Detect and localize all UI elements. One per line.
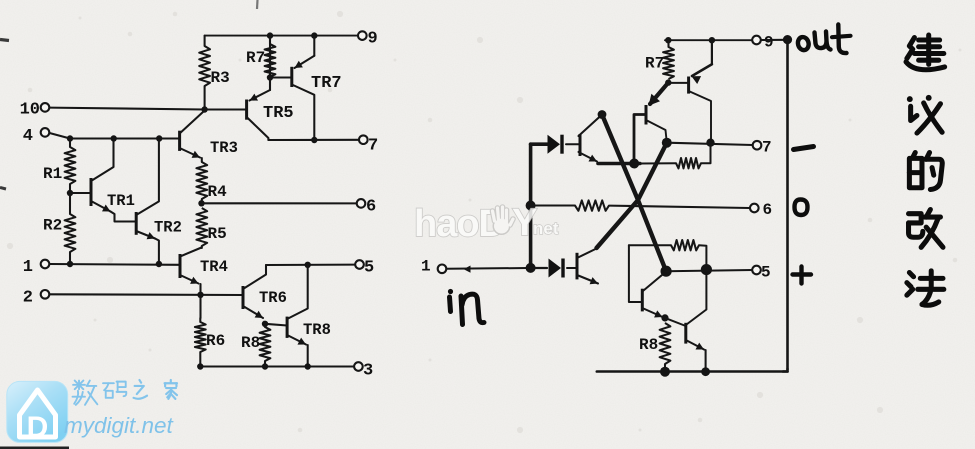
transistor TR3 base bar bbox=[178, 131, 181, 151]
wire middle resistor to pin 6 bbox=[609, 206, 750, 208]
wire pin 1 to input bus bbox=[447, 267, 529, 270]
svg-text:R3: R3 bbox=[211, 69, 230, 87]
pin 5 terminal (right) bbox=[752, 266, 761, 275]
junction input bus / pin6 rail bbox=[526, 201, 536, 211]
junction pin4 rail / TR2 collector bbox=[156, 135, 162, 141]
wire bus to diode D2 bbox=[531, 267, 547, 269]
wire TR8eq emitter down to bottom rail bbox=[705, 350, 707, 372]
diode D1 bbox=[548, 135, 561, 154]
TR3eq emitter w/ arrow bbox=[579, 152, 598, 162]
junction top rail / TR7eq emitter bbox=[709, 37, 715, 43]
junction pin5 rail / cross wire A / TR6eq collector bbox=[661, 266, 672, 277]
pin 6 terminal (right) bbox=[750, 204, 759, 213]
junction R3 / pin10 rail / TR3 collector / TR5 base bbox=[201, 106, 207, 112]
TR6eq collector to pin5 junction bbox=[642, 273, 665, 292]
junction pin3 rail / R8 bbox=[262, 363, 268, 369]
wire: junction to pin 6 bbox=[202, 202, 357, 204]
transistor TR8 base bar bbox=[286, 317, 289, 338]
junction input bus / input wire bbox=[526, 263, 536, 273]
TR4eq emitter w/ arrow bbox=[577, 275, 598, 284]
svg-text:R6: R6 bbox=[206, 332, 225, 350]
resistor R3 bbox=[199, 46, 210, 86]
wire R8 bottom (right) bbox=[664, 364, 666, 372]
heading char 议 bbox=[907, 95, 942, 133]
svg-text:5: 5 bbox=[364, 259, 374, 278]
resistor R8 (right) bbox=[660, 323, 671, 364]
svg-text:R5: R5 bbox=[208, 225, 227, 243]
wire R4 top bbox=[201, 158, 203, 162]
pin 4 terminal bbox=[41, 128, 50, 137]
TR3 emitter w/ arrow bbox=[180, 148, 200, 158]
junction top rail / out bus bbox=[783, 35, 792, 44]
svg-text:10: 10 bbox=[20, 101, 40, 120]
TR8 collector up to pin5 rail bbox=[287, 265, 308, 319]
svg-text:4: 4 bbox=[23, 127, 33, 146]
junction pin7 rail bbox=[311, 137, 317, 143]
TR7 collector down to pin7 rail bbox=[292, 85, 315, 141]
wire to TR8 base bbox=[265, 324, 287, 326]
wire R2 top bbox=[69, 193, 71, 214]
resistor R8 bbox=[260, 327, 271, 361]
junction pin3 rail / TR8 emitter bbox=[305, 363, 311, 369]
TR1 collector bbox=[91, 139, 114, 182]
cross wire B: pin7 junction to TR4eq collector bbox=[597, 143, 667, 248]
junction top rail / TR7 bbox=[311, 32, 317, 38]
junction TR6 emitter / R8 / TR8 base bbox=[262, 321, 268, 327]
pin 1 terminal (right) bbox=[438, 265, 447, 274]
TR6 emitter w/ arrow bbox=[243, 306, 263, 318]
svg-text:R7: R7 bbox=[246, 49, 265, 67]
scan artifact top edge tick bbox=[256, 0, 259, 9]
wire feedback resistor up to pin7 rail bbox=[701, 143, 711, 164]
handwritten plus bbox=[793, 267, 812, 284]
TR7 emitter vertical bbox=[313, 36, 315, 56]
transistor TR7-equivalent base bar bbox=[687, 77, 690, 94]
wire TR2 emitter down to pin1 rail bbox=[155, 239, 159, 265]
wire pin 5 rail (right) bbox=[666, 270, 752, 271]
junction top rail / R7+TR5 bbox=[267, 32, 273, 38]
wire TR8 emitter down to pin3 rail bbox=[307, 345, 309, 367]
pin 9 terminal (left) bbox=[358, 31, 367, 40]
junction pin3 rail / R6 bbox=[197, 363, 203, 369]
junction bottom rail / TR8eq emitter bbox=[701, 367, 710, 376]
TR4eq collector bbox=[577, 249, 597, 259]
wire: right top rail to pin 9 bbox=[665, 39, 752, 41]
junction pin1 rail / TR2 emitter bbox=[156, 261, 162, 267]
input bus vertical (hand-drawn) bbox=[529, 144, 533, 268]
junction R1/R2/TR1 base bbox=[67, 190, 73, 196]
junction R7 / TR7eq base / TR5eq collector arrow bbox=[665, 79, 671, 85]
svg-text:net: net bbox=[533, 219, 559, 238]
wire TR6eq base rail to lower resistor bbox=[629, 244, 671, 246]
svg-text:TR2: TR2 bbox=[154, 219, 182, 237]
junction pin7 rail / TR5eq emitter bbox=[662, 138, 672, 148]
TR8eq collector up to pin5 rail bbox=[686, 275, 707, 325]
handwritten o bbox=[795, 200, 808, 216]
transistor TR1 base bar bbox=[90, 178, 93, 206]
TR5eq emitter down to pin7 rail bbox=[646, 120, 667, 143]
wire R4 bottom bbox=[201, 199, 203, 203]
wire: left top rail to pin 9 bbox=[205, 35, 358, 37]
svg-text:1: 1 bbox=[23, 258, 33, 277]
TR7 emitter arrow into base bbox=[295, 56, 315, 68]
cross wire A: TR3eq collector to pin5 junction bbox=[602, 115, 666, 272]
TR7eq emitter vertical bbox=[711, 40, 713, 64]
svg-text:R7: R7 bbox=[645, 55, 664, 73]
logo text 家 bbox=[165, 380, 177, 399]
wire R8 bottom bbox=[264, 361, 266, 367]
wire D2 to TR4eq base bbox=[567, 267, 577, 269]
wire R6 top bbox=[199, 318, 201, 322]
junction pin4 rail / R1 bbox=[67, 135, 73, 141]
transistor TR8-equivalent base bar bbox=[684, 323, 687, 344]
TR6 collector up to pin5 rail bbox=[243, 265, 266, 289]
svg-text:R1: R1 bbox=[43, 165, 62, 183]
watermark haoDY.net bbox=[414, 202, 559, 245]
wire R7 top bbox=[269, 36, 271, 44]
pin 6 terminal (left) bbox=[357, 199, 366, 208]
wire R5 bottom bbox=[201, 246, 203, 248]
out bus vertical wire bbox=[786, 40, 789, 369]
wire bus to middle resistor bbox=[531, 205, 575, 207]
svg-text:TR8: TR8 bbox=[303, 321, 331, 339]
transistor TR5 base bar bbox=[245, 100, 248, 120]
scan artifact bottom-left black strip bbox=[0, 447, 69, 449]
svg-text:9: 9 bbox=[764, 34, 774, 52]
resistor R1 bbox=[65, 147, 76, 184]
transistor TR4-equivalent base bar bbox=[576, 253, 579, 280]
TR5 collector to pin7 rail bbox=[247, 117, 315, 140]
svg-text:R2: R2 bbox=[43, 217, 62, 235]
pin 2 terminal bbox=[41, 290, 50, 299]
logo text 之 bbox=[134, 380, 148, 399]
svg-text:D: D bbox=[27, 411, 49, 444]
diode D2 bbox=[549, 259, 562, 278]
heading char 建 bbox=[906, 35, 945, 70]
logo house outline bbox=[20, 390, 56, 437]
junction TR6eq emitter / R8 / TR8eq base bbox=[661, 314, 668, 321]
transistor TR4 base bar bbox=[179, 254, 182, 278]
svg-text:6: 6 bbox=[366, 198, 376, 217]
TR3 collector bbox=[180, 111, 205, 134]
TR7eq emitter arrow into base bbox=[692, 64, 712, 76]
TR3eq collector bbox=[579, 116, 602, 137]
pin 7 terminal (right) bbox=[753, 141, 762, 150]
svg-text:2: 2 bbox=[23, 289, 33, 308]
TR4 collector bbox=[180, 248, 202, 257]
wire TR1 base bbox=[70, 192, 91, 194]
junction TR3eq collector / cross wire A bbox=[598, 110, 607, 119]
svg-text:TR1: TR1 bbox=[107, 192, 135, 210]
junction bottom rail / R8 bbox=[660, 367, 670, 377]
svg-text:1: 1 bbox=[421, 258, 431, 276]
svg-text:3: 3 bbox=[363, 362, 373, 381]
TR8 emitter w/ arrow bbox=[287, 335, 306, 345]
junction R7 / TR7 base / TR5 emitter bbox=[267, 74, 273, 80]
pin 9 terminal (right) bbox=[752, 36, 761, 45]
scan artifact left edge dash 1 bbox=[0, 40, 9, 41]
resistor R6 bbox=[195, 322, 206, 352]
scan artifact left edge dash 2 bbox=[0, 188, 6, 190]
TR2 emitter w/ arrow bbox=[136, 231, 155, 239]
emitter rail thick segment (hand-drawn) bbox=[598, 162, 640, 166]
svg-text:TR5: TR5 bbox=[263, 104, 294, 123]
handwritten "out" bbox=[797, 36, 810, 51]
junction R4/R5/pin6 rail bbox=[198, 200, 204, 206]
junction pin4 rail / TR1 collector bbox=[111, 135, 117, 141]
wire: pin 1 rail to TR4 base bbox=[50, 263, 181, 266]
heading char 的 bbox=[909, 153, 942, 190]
wire pin 5 rail bbox=[266, 264, 355, 266]
wire: pin 10 to R3 junction bbox=[50, 108, 205, 110]
resistor R7 (right) bbox=[663, 47, 674, 79]
svg-text:9: 9 bbox=[368, 30, 378, 49]
wire D1 to TR3eq base bbox=[566, 143, 579, 145]
wire TR1 emitter to TR2 base bbox=[111, 212, 137, 222]
svg-text:TR6: TR6 bbox=[259, 289, 287, 307]
wire pin 7 rail bbox=[268, 139, 358, 141]
TR4 emitter w/ arrow bbox=[180, 275, 199, 284]
wire lower resistor down to pin5 rail bbox=[699, 245, 706, 264]
feedback resistor upper (R-emitter) bbox=[676, 158, 701, 168]
wire pin 7 rail (right) bbox=[667, 143, 753, 145]
wire to TR7 base bbox=[270, 76, 292, 78]
svg-text:R8: R8 bbox=[241, 334, 260, 352]
transistor TR6-equivalent base bar bbox=[641, 289, 644, 312]
svg-text:mydigit.net: mydigit.net bbox=[64, 413, 175, 438]
TR5 emitter arrow into base bbox=[250, 90, 271, 101]
wire R7 top (right) bbox=[667, 40, 669, 47]
wire R3 bottom bbox=[204, 86, 206, 110]
wire: junction to TR5 base bbox=[205, 108, 247, 110]
svg-text:6: 6 bbox=[763, 201, 773, 219]
junction pin5 rail / TR8eq collector bbox=[701, 264, 712, 275]
transistor TR3-equivalent base bar bbox=[579, 134, 582, 156]
wire R6 bottom bbox=[199, 352, 201, 367]
pin 10 terminal bbox=[41, 103, 50, 112]
wire pin9 to out bus bbox=[761, 39, 788, 41]
wire junction down to TR5 emitter arrow bbox=[269, 78, 271, 91]
logo text 码 bbox=[103, 382, 126, 398]
heading char 法 bbox=[907, 271, 944, 305]
svg-text:R8: R8 bbox=[639, 336, 658, 354]
svg-text:7: 7 bbox=[762, 139, 772, 157]
svg-text:TR3: TR3 bbox=[210, 139, 238, 157]
bottom rail wire bbox=[597, 370, 788, 373]
junction emitter rail / TR5eq base wire bbox=[629, 159, 639, 169]
TR6eq emitter w/ arrow bbox=[642, 308, 662, 317]
resistor R7 bbox=[265, 44, 276, 77]
wire TR4 emitter down to R6 bbox=[199, 284, 201, 318]
junction pin1 rail / R2 bbox=[67, 261, 73, 267]
pin 5 terminal (left) bbox=[355, 260, 364, 269]
TR1 emitter w/ arrow bbox=[91, 201, 111, 212]
hand arrow on input wire bbox=[464, 266, 471, 273]
svg-text:TR4: TR4 bbox=[200, 258, 228, 276]
transistor TR6 base bar bbox=[242, 286, 245, 309]
junction pin2 rail / TR4 emitter bbox=[197, 292, 203, 298]
wire pin 3 rail bbox=[200, 365, 353, 367]
TR5eq base L-wire down to emitter line bbox=[634, 115, 646, 164]
heading char 改 bbox=[909, 210, 943, 248]
handwritten minus bbox=[794, 147, 814, 150]
logo text 数 bbox=[73, 381, 98, 405]
pin 7 terminal (left) bbox=[359, 135, 368, 144]
junction pin7 rail / TR7eq collector / feedback resistor bbox=[706, 139, 714, 147]
handwritten "in" bbox=[448, 289, 453, 294]
middle resistor (pin6 rail) bbox=[575, 200, 609, 210]
svg-text:7: 7 bbox=[368, 137, 378, 156]
TR7eq collector down to pin7 rail bbox=[689, 91, 711, 143]
junction top rail / R7 (right) bbox=[665, 37, 671, 43]
pin 1 terminal (left) bbox=[41, 260, 50, 269]
wire: pin 2 rail to TR6 base bbox=[50, 293, 244, 296]
svg-text:TR7: TR7 bbox=[311, 74, 342, 93]
wire TR7eq base bbox=[668, 82, 688, 84]
faint scan speckles bbox=[79, 17, 82, 20]
wire R1 top bbox=[69, 139, 71, 148]
emitter rail to feedback resistor bbox=[640, 162, 676, 164]
wire R1 bottom bbox=[69, 184, 71, 193]
transistor TR2 base bar bbox=[135, 212, 138, 235]
junction pin5 rail / TR8 collector bbox=[305, 262, 311, 268]
lower feedback resistor bbox=[671, 240, 699, 250]
resistor R5 bbox=[196, 208, 207, 246]
out bus bottom corner bbox=[783, 369, 788, 372]
TR5eq collector thick arrow from R7 junction into base bbox=[650, 83, 668, 104]
transistor TR5-equivalent base bar bbox=[645, 105, 648, 125]
TR2 collector bbox=[136, 139, 159, 216]
TR8eq emitter w/ arrow bbox=[686, 340, 704, 350]
wire to TR8eq base bbox=[665, 318, 686, 326]
pin 3 terminal (left) bbox=[354, 362, 363, 371]
TR5 emitter wire from top rail bbox=[269, 36, 271, 90]
svg-text:5: 5 bbox=[761, 264, 771, 282]
transistor TR7 base bar bbox=[290, 67, 293, 87]
TR6eq base L-wire from pin5 resistor rail bbox=[629, 245, 642, 302]
svg-text:R4: R4 bbox=[208, 183, 228, 201]
wire bus top corner to diode D1 bbox=[531, 142, 548, 146]
wire R8 top bbox=[264, 324, 266, 327]
resistor R2 bbox=[65, 214, 76, 252]
wire R2 bottom bbox=[69, 252, 71, 264]
wire R3 top bbox=[204, 36, 206, 46]
wire: pin 4 rail to TR3 base bbox=[50, 133, 180, 139]
resistor R4 bbox=[196, 162, 207, 199]
